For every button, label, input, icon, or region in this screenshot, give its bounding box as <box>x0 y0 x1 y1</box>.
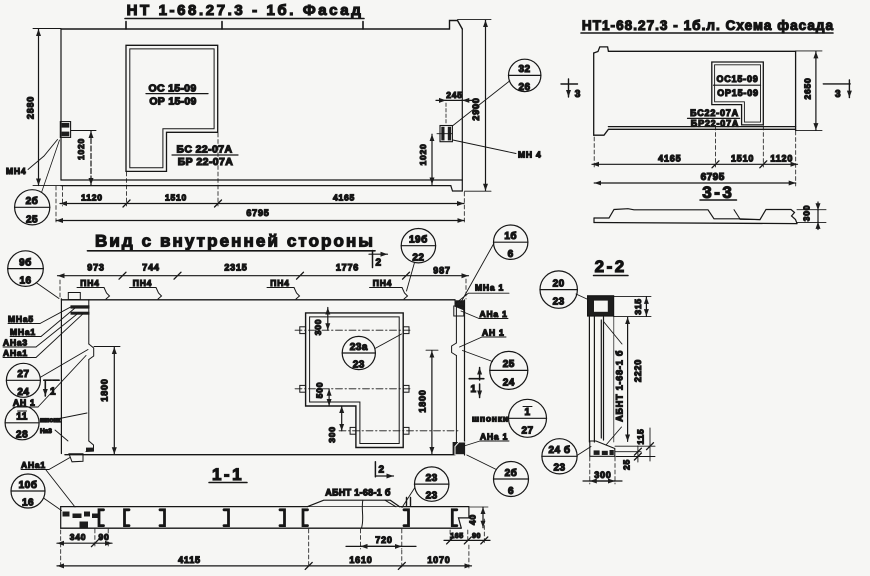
section mark 2 top <box>372 251 374 268</box>
svg-text:2б: 2б <box>26 195 39 207</box>
facade bottom dimension line 1120/1510/4165 <box>60 133 464 207</box>
stirrups <box>99 510 457 526</box>
interior left-side labels <box>3 251 88 511</box>
svg-text:300: 300 <box>313 319 323 336</box>
label МН4 left <box>6 140 58 177</box>
callout circle 1б/6 <box>494 225 528 259</box>
callout circle 19б/22 <box>401 229 435 263</box>
dimension 315 <box>614 296 651 316</box>
svg-text:90: 90 <box>472 533 481 540</box>
ПН4 labels with flags <box>77 278 408 299</box>
interior window opening <box>306 313 404 448</box>
svg-text:1-1: 1-1 <box>212 465 244 484</box>
dimension 720 <box>346 529 416 549</box>
facade dimension 6795 <box>56 186 464 222</box>
svg-text:115: 115 <box>636 428 646 444</box>
callout circle 2б/6 <box>494 462 529 497</box>
svg-text:10б: 10б <box>19 479 38 491</box>
svg-text:27: 27 <box>521 426 533 437</box>
svg-text:1776: 1776 <box>336 263 359 273</box>
callout circle 11/28 <box>5 406 39 440</box>
svg-text:11: 11 <box>16 412 28 423</box>
window dimension 500 <box>315 382 330 406</box>
svg-text:2б: 2б <box>505 467 518 479</box>
svg-text:340: 340 <box>70 532 87 542</box>
svg-text:АН 1: АН 1 <box>482 328 505 338</box>
scheme title НТ1-68.27.3-1б.л Схема фасада <box>581 18 834 33</box>
interior left end profile <box>68 293 93 462</box>
svg-text:На3: На3 <box>40 428 52 435</box>
label АБНТ 1-68-1б vertical <box>604 322 625 446</box>
dimension 1020 (facade left) <box>71 131 96 186</box>
svg-text:300: 300 <box>327 426 337 443</box>
dimension 115 <box>615 428 655 461</box>
callout circle 2б/25 <box>15 190 50 226</box>
svg-text:165: 165 <box>450 533 463 540</box>
rebar cluster left end <box>63 512 100 529</box>
svg-text:23а: 23а <box>350 342 368 353</box>
svg-text:МНа1: МНа1 <box>10 327 36 337</box>
scheme bottom dimension line 4165/1510/1120 <box>592 126 798 168</box>
dimension 1020 (facade right) <box>418 134 452 185</box>
svg-text:МНа 1: МНа 1 <box>475 283 504 293</box>
svg-text:2: 2 <box>379 465 385 476</box>
embed plate МН4 right <box>440 126 452 142</box>
svg-text:1020: 1020 <box>418 143 428 165</box>
scheme dimension 6795 <box>594 131 796 186</box>
svg-text:23: 23 <box>553 463 565 474</box>
svg-text:1070: 1070 <box>427 555 450 565</box>
dimension 2220 <box>628 317 643 441</box>
label МН4 right <box>453 140 542 160</box>
svg-text:987: 987 <box>433 266 450 276</box>
2-2 panel strip verticals <box>589 316 613 442</box>
svg-text:26: 26 <box>518 82 530 93</box>
svg-text:2315: 2315 <box>224 263 247 273</box>
section mark 1 left <box>44 379 59 381</box>
section 1-1 title <box>209 465 247 484</box>
dimension 1800 left <box>94 347 120 455</box>
svg-text:315: 315 <box>633 298 643 315</box>
svg-text:6795: 6795 <box>246 208 269 218</box>
embed plate МН4 left <box>60 122 70 138</box>
dimension 340/90 <box>57 529 112 568</box>
interior right-side labels <box>369 225 547 497</box>
callout circle 10б/16 <box>11 474 45 508</box>
scheme window label ОС15-09 <box>714 74 761 85</box>
section 3-3 title <box>700 183 737 202</box>
svg-text:300: 300 <box>802 205 812 222</box>
section 3-3 dimension 300 <box>797 202 826 230</box>
svg-text:АНа 1: АНа 1 <box>480 432 508 442</box>
leader to callout 2б/25 <box>42 140 60 193</box>
section 2-2 title <box>594 257 629 276</box>
svg-text:1120: 1120 <box>770 154 793 164</box>
svg-text:1120: 1120 <box>81 192 103 202</box>
2-2 bottom embed block <box>590 441 615 456</box>
facade panel outline <box>61 21 462 192</box>
interior title Вид с внутренней стороны <box>88 232 376 251</box>
section 1-1 strip outline <box>61 507 469 529</box>
svg-text:2900: 2900 <box>471 97 481 120</box>
svg-text:32: 32 <box>518 64 530 75</box>
dimension 25 <box>615 446 655 470</box>
facade top edge tick marks <box>126 22 363 30</box>
svg-text:ОС 15-09: ОС 15-09 <box>149 83 197 95</box>
window dimension 300 bottom <box>327 406 342 443</box>
svg-text:744: 744 <box>142 263 159 273</box>
svg-text:НТ1-68.27.3 - 1б.л. Схема фаса: НТ1-68.27.3 - 1б.л. Схема фасада <box>582 18 834 33</box>
svg-text:Вид с внутренней стороны: Вид с внутренней стороны <box>95 232 375 251</box>
callout circle 23/23 <box>402 467 449 508</box>
svg-text:6: 6 <box>508 249 514 260</box>
svg-text:1800: 1800 <box>100 378 110 401</box>
svg-text:БР 22-07А: БР 22-07А <box>178 156 234 168</box>
svg-text:24: 24 <box>17 387 29 398</box>
svg-text:ПН4: ПН4 <box>80 278 99 288</box>
svg-text:23: 23 <box>426 491 438 502</box>
svg-text:24: 24 <box>503 378 515 389</box>
svg-text:300: 300 <box>594 470 611 480</box>
svg-text:3-3: 3-3 <box>702 183 734 202</box>
svg-text:500: 500 <box>315 382 325 399</box>
callout circle 23а/23 <box>342 334 401 371</box>
svg-text:19б: 19б <box>409 234 428 246</box>
label АБНТ 1-68-1б <box>325 488 391 498</box>
svg-text:ПН4: ПН4 <box>373 278 392 288</box>
svg-text:23: 23 <box>353 360 365 371</box>
svg-text:40: 40 <box>468 514 478 525</box>
svg-text:1020: 1020 <box>76 138 86 160</box>
callout circle 24б/23 <box>542 439 591 474</box>
callout circle 32/26 <box>453 59 541 125</box>
window label БС 22-07А / БР 22-07А <box>172 144 238 169</box>
svg-text:22: 22 <box>412 253 424 264</box>
svg-text:МНа5: МНа5 <box>8 314 34 324</box>
interior right end profile <box>452 300 465 455</box>
dashes above stirrup <box>407 498 411 506</box>
callout circle 27/24 <box>6 363 40 397</box>
svg-text:АБНТ 1-68-1 б: АБНТ 1-68-1 б <box>325 488 391 498</box>
svg-text:6: 6 <box>508 486 514 497</box>
svg-text:973: 973 <box>87 263 104 273</box>
callout circle 9б/16 <box>8 251 44 287</box>
dimension 4115/1610/1070 <box>57 529 472 569</box>
scheme window opening <box>712 62 764 125</box>
section mark 3 right <box>823 80 850 100</box>
dimension 245 (facade right) <box>436 90 472 124</box>
svg-text:27: 27 <box>17 369 29 380</box>
svg-text:БС22-07А: БС22-07А <box>690 108 739 118</box>
svg-text:МН 4: МН 4 <box>518 150 542 160</box>
svg-text:720: 720 <box>375 535 392 545</box>
svg-text:6795: 6795 <box>701 172 725 183</box>
svg-text:25: 25 <box>26 215 38 226</box>
svg-text:АНа1: АНа1 <box>21 460 46 470</box>
facade title НТ 1-68.27.3-1б Фасад <box>125 2 364 19</box>
facade window opening (L-shape) <box>126 45 218 171</box>
2-2 top embed block <box>588 296 614 316</box>
svg-text:ОС15-09: ОС15-09 <box>716 74 758 84</box>
svg-text:28: 28 <box>16 430 28 441</box>
window keys (шпонки) <box>300 327 409 434</box>
dimension 300 bottom of 2-2 <box>583 457 622 484</box>
svg-text:БР22-07А: БР22-07А <box>691 119 739 129</box>
svg-text:4165: 4165 <box>658 154 681 164</box>
interior top dimension line 973/744/2315/1776/987 <box>58 263 469 300</box>
svg-text:АНа1: АНа1 <box>3 348 28 358</box>
svg-text:БС 22-07А: БС 22-07А <box>177 144 233 156</box>
svg-text:АНа 1: АНа 1 <box>480 309 508 319</box>
dimension 40 right end <box>468 507 489 528</box>
scheme dimension 2650 <box>796 51 822 131</box>
svg-text:1800: 1800 <box>418 389 428 412</box>
svg-text:2-2: 2-2 <box>595 257 627 276</box>
key centre dash-dot lines <box>295 330 458 431</box>
svg-text:23: 23 <box>553 297 565 308</box>
svg-text:4165: 4165 <box>333 192 355 202</box>
svg-text:2880: 2880 <box>26 96 36 119</box>
svg-text:16: 16 <box>19 276 31 287</box>
svg-text:2220: 2220 <box>633 359 643 382</box>
callout circle 1/27 <box>509 399 547 437</box>
svg-text:25: 25 <box>503 359 515 370</box>
scheme panel outline <box>594 47 796 135</box>
svg-text:90: 90 <box>98 532 109 542</box>
svg-text:1б: 1б <box>504 230 517 242</box>
svg-text:1610: 1610 <box>349 555 372 565</box>
svg-text:20: 20 <box>553 279 565 290</box>
svg-text:1510: 1510 <box>165 192 187 202</box>
dimension 1800 right <box>418 350 439 454</box>
trapezoid joint bump АБНТ <box>308 500 400 528</box>
svg-text:3: 3 <box>835 89 841 100</box>
svg-text:АНа3: АНа3 <box>3 338 28 348</box>
section mark 2 bottom <box>375 462 393 477</box>
svg-text:24 б: 24 б <box>548 444 570 456</box>
svg-text:НТ 1-68.27.3 - 1б. Фасад: НТ 1-68.27.3 - 1б. Фасад <box>127 2 364 19</box>
svg-text:1: 1 <box>524 407 530 418</box>
callout circle 25/24 <box>490 351 528 389</box>
svg-text:1: 1 <box>471 384 477 395</box>
svg-text:шпонки: шпонки <box>472 414 509 424</box>
svg-text:ПН4: ПН4 <box>133 278 152 288</box>
window dimension 300 top <box>313 308 328 336</box>
svg-text:шпонк: шпонк <box>40 417 61 424</box>
svg-text:9б: 9б <box>19 257 32 269</box>
svg-text:2: 2 <box>376 258 382 269</box>
dimension 165/90 right <box>444 519 490 544</box>
svg-text:23: 23 <box>426 473 438 484</box>
svg-text:АБНТ 1-68-1 б: АБНТ 1-68-1 б <box>614 350 624 422</box>
section mark 1 right <box>469 378 484 380</box>
svg-text:3: 3 <box>575 89 581 100</box>
dimension 2880 (facade left) <box>26 29 62 186</box>
svg-text:1: 1 <box>50 387 56 398</box>
window label ОС 15-09 / ОР 15-09 <box>146 83 208 108</box>
svg-text:ПН4: ПН4 <box>270 278 289 288</box>
interior panel outline <box>61 299 464 455</box>
svg-text:МН4: МН4 <box>6 166 26 176</box>
section 3-3 profile strip <box>594 209 797 224</box>
svg-text:2650: 2650 <box>803 77 813 99</box>
svg-text:245: 245 <box>446 90 463 100</box>
scheme label БС22-07А <box>688 108 740 118</box>
svg-text:4115: 4115 <box>178 555 201 565</box>
svg-text:16: 16 <box>22 498 34 509</box>
svg-text:ОР15-09: ОР15-09 <box>717 88 759 98</box>
callout circle 20/23 <box>540 271 588 308</box>
section mark 3 left <box>561 79 581 100</box>
svg-text:25: 25 <box>622 459 632 470</box>
dimension 2900 (facade right) <box>458 20 492 192</box>
svg-text:ОР 15-09: ОР 15-09 <box>149 96 196 108</box>
svg-text:1510: 1510 <box>731 154 754 164</box>
